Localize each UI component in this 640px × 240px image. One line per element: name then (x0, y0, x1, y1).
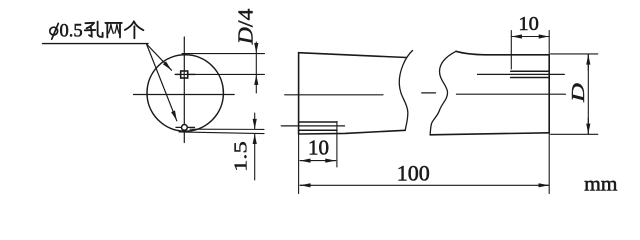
hole H2 centerline (281, 125, 344, 127)
extension line circle bottom tangent (179, 132, 264, 134)
shaft left edge (298, 53, 300, 134)
centerline dash in break gap (422, 92, 436, 94)
horizontal centerline of circle view (134, 94, 235, 96)
hole H1 centerline (478, 73, 565, 75)
right edge extension up (548, 31, 550, 55)
svg-text:D: D (568, 83, 588, 103)
shaft right piece centerline (457, 93, 566, 95)
hanzi kong (85, 22, 103, 37)
shaft right edge (548, 55, 550, 133)
extension line for 10 (left) (336, 122, 338, 168)
dimension D/4 (255, 42, 257, 93)
shaft left edge extension down (298, 134, 300, 194)
leader to hole H1 (147, 44, 172, 70)
svg-text:0.5: 0.5 (60, 21, 83, 41)
hole H1 side view lines (511, 71, 549, 77)
shaft right piece top edge (456, 51, 549, 55)
svg-text:10: 10 (518, 13, 539, 35)
circle view outline (147, 55, 223, 131)
svg-text:mm: mm (584, 172, 618, 196)
shaft left piece centerline (285, 94, 383, 96)
shaft left piece top edge (299, 53, 407, 58)
extension line circle top tangent (182, 53, 265, 55)
extension line D bottom (551, 133, 598, 135)
dimension 100 (300, 184, 549, 186)
dimension D (587, 54, 589, 134)
svg-text:10: 10 (308, 135, 329, 159)
dimension 10 (bottom left) (300, 160, 336, 162)
hanzi liang (105, 23, 121, 38)
label underline (43, 43, 148, 45)
svg-text:D/4: D/4 (234, 9, 258, 46)
hole H2 (lower, round symbol) (176, 125, 195, 131)
right edge extension down (548, 133, 550, 194)
label phi 0.5 two holes (50, 23, 59, 39)
extension line for 10 (top) (510, 31, 512, 70)
break line left (399, 51, 412, 131)
dimension 1.5 (254, 113, 256, 180)
vertical centerline of circle view (183, 37, 185, 143)
svg-text:100: 100 (397, 161, 430, 186)
extension line D top (551, 53, 598, 55)
hanzi ge (125, 21, 143, 38)
dimension 10 (top right) (511, 36, 549, 38)
shaft right piece bottom edge (430, 133, 549, 135)
svg-text:1.5: 1.5 (231, 141, 251, 172)
hole H2 side view lines (299, 122, 337, 130)
leader to hole H2 (147, 44, 177, 121)
shaft left piece bottom edge (299, 130, 406, 134)
break line right (430, 51, 456, 135)
extension line from hole H2 (190, 128, 264, 130)
hole H1 (upper, square symbol) (175, 71, 264, 78)
